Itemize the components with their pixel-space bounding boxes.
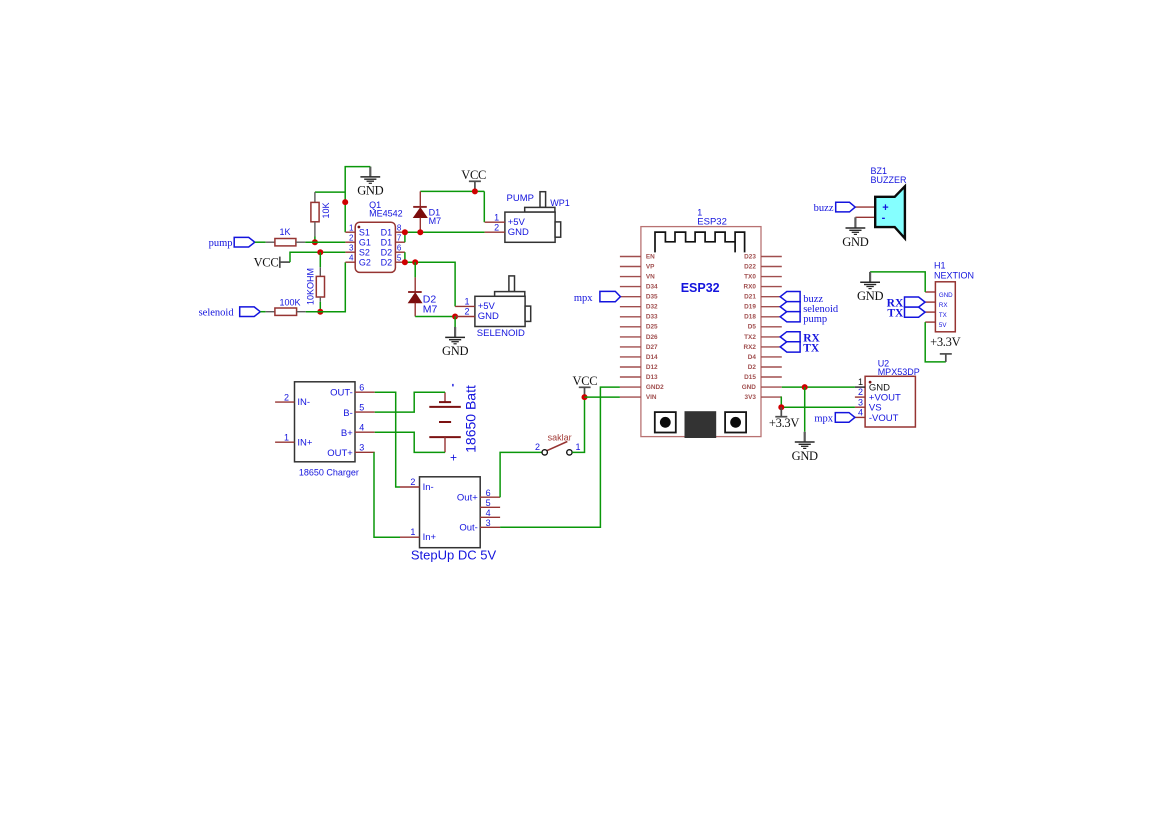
svg-text:D18: D18	[744, 314, 756, 321]
svg-text:GND: GND	[792, 449, 818, 463]
svg-text:G1: G1	[359, 237, 371, 247]
svg-text:2: 2	[535, 442, 540, 452]
svg-text:EN: EN	[646, 253, 655, 260]
junction	[472, 188, 478, 194]
svg-text:S2: S2	[359, 247, 370, 257]
svg-text:1: 1	[284, 432, 289, 442]
svg-text:1K: 1K	[279, 227, 290, 237]
svg-text:GND: GND	[357, 184, 383, 198]
wire	[260, 311, 265, 313]
wire	[420, 190, 484, 192]
wire OUT- to In-	[375, 392, 400, 487]
switch saklar	[535, 433, 581, 455]
net flag pump	[209, 237, 255, 248]
net flag TX nextion	[887, 307, 925, 320]
diode D2 M7	[408, 262, 437, 316]
wire	[405, 231, 485, 233]
svg-text:D32: D32	[646, 304, 658, 311]
svg-text:2: 2	[284, 392, 289, 402]
svg-text:1: 1	[575, 442, 580, 452]
svg-text:4: 4	[359, 423, 364, 433]
resistor 1K	[266, 227, 306, 246]
svg-text:GND: GND	[939, 292, 953, 299]
wire	[415, 316, 455, 318]
svg-text:D15: D15	[744, 374, 756, 381]
svg-text:WP1: WP1	[550, 198, 570, 208]
power +3.3V nextion	[930, 335, 960, 362]
svg-text:1: 1	[349, 223, 354, 232]
net flag selenoid	[199, 307, 261, 318]
junction	[402, 259, 408, 265]
connector SELENOID	[455, 276, 531, 339]
svg-text:B-: B-	[343, 408, 353, 419]
svg-text:D21: D21	[744, 294, 756, 301]
resistor 100K	[266, 298, 306, 316]
svg-text:PUMP: PUMP	[507, 193, 534, 204]
svg-text:GND: GND	[842, 235, 868, 249]
wire 3v3 to VS	[781, 397, 855, 407]
svg-text:2: 2	[858, 387, 863, 397]
svg-text:selenoid: selenoid	[199, 307, 235, 318]
wire	[290, 252, 345, 262]
junction	[452, 314, 458, 320]
svg-text:10K: 10K	[321, 202, 331, 218]
svg-text:OUT-: OUT-	[330, 388, 353, 399]
connector WP1 PUMP	[485, 192, 570, 243]
svg-text:ME4542: ME4542	[369, 209, 403, 219]
svg-text:TX: TX	[803, 343, 820, 355]
wire pins 8-7 bridge	[404, 232, 406, 242]
junction	[402, 229, 408, 235]
svg-text:IN+: IN+	[297, 437, 313, 448]
svg-text:+: +	[450, 451, 457, 465]
svg-text:TX2: TX2	[744, 334, 756, 341]
svg-text:1: 1	[464, 297, 469, 307]
svg-text:G2: G2	[359, 257, 371, 267]
svg-text:GND: GND	[857, 289, 883, 303]
module ESP32	[620, 207, 782, 436]
svg-text:18650 Batt: 18650 Batt	[462, 385, 478, 453]
svg-text:5: 5	[359, 403, 364, 413]
svg-text:M7: M7	[429, 216, 442, 226]
svg-text:GND: GND	[742, 384, 757, 391]
ground mpx	[792, 432, 818, 463]
junction	[412, 259, 418, 265]
svg-text:100K: 100K	[279, 298, 300, 308]
net flag RX (esp32)	[780, 332, 800, 342]
svg-text:4: 4	[858, 407, 863, 417]
svg-text:saklar: saklar	[548, 433, 572, 443]
svg-text:B+: B+	[341, 428, 353, 439]
svg-text:5: 5	[486, 498, 491, 508]
power VCC rotated	[254, 255, 290, 269]
svg-text:In-: In-	[423, 482, 434, 493]
wire	[255, 241, 266, 243]
svg-text:mpx: mpx	[814, 414, 833, 425]
transistor Q1 ME4542	[345, 200, 405, 273]
svg-text:D23: D23	[744, 253, 756, 260]
antenna	[655, 232, 745, 252]
svg-text:VCC: VCC	[254, 255, 279, 269]
svg-text:2: 2	[494, 223, 499, 233]
usb connector	[685, 411, 717, 438]
svg-text:-VOUT: -VOUT	[869, 413, 899, 424]
wire	[306, 262, 346, 312]
svg-text:D25: D25	[646, 324, 658, 331]
svg-text:M7: M7	[423, 304, 438, 316]
svg-text:OUT+: OUT+	[327, 448, 353, 459]
svg-text:RX2: RX2	[743, 344, 756, 351]
svg-text:4: 4	[349, 253, 354, 262]
svg-text:D2: D2	[381, 247, 393, 257]
ground top-left	[357, 167, 383, 198]
svg-text:3V3: 3V3	[745, 394, 757, 401]
module StepUp DC 5V	[400, 477, 500, 563]
resistor 10K	[311, 192, 331, 242]
net flag buzz	[814, 202, 856, 214]
sensor U2 MPX53DP	[855, 358, 920, 427]
net flag buzz (esp32)	[780, 292, 800, 302]
svg-text:RX0: RX0	[743, 284, 756, 291]
junction	[342, 199, 348, 205]
ground nextion	[857, 272, 883, 303]
wire nextion 5V	[925, 322, 946, 362]
wire gnd drop	[804, 387, 806, 432]
power VCC esp32	[572, 374, 597, 397]
resistor 10KOHM	[305, 252, 324, 312]
net flag pump (esp32)	[780, 312, 800, 322]
wire nextion gnd	[870, 272, 925, 292]
svg-text:VCC: VCC	[461, 168, 486, 182]
svg-text:10KOHM: 10KOHM	[305, 268, 315, 305]
svg-text:3: 3	[349, 243, 354, 252]
svg-text:TX: TX	[887, 308, 904, 320]
svg-text:D2: D2	[381, 257, 393, 267]
svg-text:4: 4	[486, 508, 491, 518]
wire	[305, 241, 345, 243]
svg-text:buzz: buzz	[814, 203, 834, 214]
svg-text:Out+: Out+	[457, 493, 478, 504]
connector H1 NEXTION	[925, 260, 974, 332]
junction	[317, 309, 323, 315]
svg-text:RX: RX	[939, 302, 948, 309]
svg-text:GND: GND	[442, 344, 468, 358]
svg-text:1: 1	[494, 213, 499, 223]
wire pins 6-5 bridge	[404, 252, 406, 262]
button left	[655, 412, 676, 432]
battery 18650 Batt	[429, 384, 478, 465]
junction	[417, 229, 423, 235]
svg-text:D26: D26	[646, 334, 658, 341]
junction	[778, 404, 784, 410]
svg-text:-: -	[882, 212, 886, 224]
svg-text:7: 7	[397, 233, 402, 242]
svg-text:TX: TX	[939, 312, 947, 319]
net flag mpx right	[814, 413, 855, 425]
diode D1 M7	[413, 191, 441, 232]
svg-text:pump: pump	[803, 314, 827, 325]
svg-text:2: 2	[349, 233, 354, 242]
junction	[802, 384, 808, 390]
svg-text:D12: D12	[646, 364, 658, 371]
wire B+ to battery	[375, 432, 445, 452]
svg-text:pump: pump	[209, 238, 233, 249]
svg-text:+3.3V: +3.3V	[769, 416, 799, 430]
svg-text:3: 3	[486, 518, 491, 528]
svg-text:In+: In+	[423, 532, 437, 543]
wire	[345, 167, 370, 233]
svg-text:3: 3	[858, 397, 863, 407]
wire OUT+ to In+	[374, 452, 400, 537]
svg-text:5V: 5V	[939, 322, 947, 329]
svg-text:TX0: TX0	[744, 274, 756, 281]
power VCC top	[461, 168, 486, 191]
junction	[317, 249, 323, 255]
svg-text:18650 Charger: 18650 Charger	[299, 467, 359, 477]
svg-text:mpx: mpx	[574, 293, 593, 304]
net flag RX nextion	[887, 297, 925, 310]
power +3.3V esp32	[769, 407, 799, 430]
net flag mpx left	[574, 291, 621, 303]
svg-text:GND2: GND2	[646, 384, 664, 391]
svg-text:6: 6	[397, 243, 402, 252]
svg-text:D19: D19	[744, 304, 756, 311]
button right	[725, 412, 746, 432]
wire	[315, 191, 345, 193]
svg-text:6: 6	[359, 383, 364, 393]
wire esp gnd to mpx	[782, 386, 855, 388]
junction	[582, 394, 588, 400]
svg-text:5: 5	[397, 253, 402, 262]
svg-text:ESP32: ESP32	[681, 281, 720, 295]
ground buzzer	[842, 217, 868, 249]
svg-text:D35: D35	[646, 294, 658, 301]
svg-text:GND: GND	[508, 227, 529, 238]
svg-text:D4: D4	[748, 354, 757, 361]
net flag selenoid (esp32)	[780, 302, 800, 312]
svg-text:IN-: IN-	[297, 397, 310, 408]
wire B- to battery	[375, 392, 445, 412]
ground below selenoid	[442, 317, 468, 359]
svg-text:D14: D14	[646, 354, 658, 361]
svg-text:D34: D34	[646, 284, 658, 291]
svg-text:StepUp DC 5V: StepUp DC 5V	[411, 548, 497, 563]
svg-text:D22: D22	[744, 263, 756, 270]
svg-text:D1: D1	[381, 237, 393, 247]
wire	[405, 262, 455, 306]
buzzer BZ1	[855, 166, 907, 238]
net flag TX (esp32)	[780, 342, 800, 352]
svg-text:1: 1	[410, 527, 415, 537]
svg-text:2: 2	[410, 477, 415, 487]
svg-text:D1: D1	[381, 227, 393, 237]
svg-text:VP: VP	[646, 263, 655, 270]
svg-text:BUZZER: BUZZER	[871, 175, 908, 185]
svg-text:Out-: Out-	[459, 523, 477, 534]
svg-text:D27: D27	[646, 344, 658, 351]
svg-text:6: 6	[486, 488, 491, 498]
svg-text:+3.3V: +3.3V	[930, 335, 960, 349]
wire VIN	[585, 396, 620, 398]
svg-text:D13: D13	[646, 374, 658, 381]
module 18650 Charger	[275, 382, 375, 478]
svg-text:NEXTION: NEXTION	[934, 270, 974, 280]
svg-text:8: 8	[397, 223, 402, 232]
svg-text:3: 3	[359, 443, 364, 453]
svg-text:S1: S1	[359, 227, 370, 237]
svg-text:D5: D5	[748, 324, 757, 331]
wire Out+ to switch	[500, 452, 542, 497]
wire switch to VIN	[572, 397, 584, 452]
svg-text:VCC: VCC	[572, 374, 597, 388]
wire GND2 to Out-	[500, 387, 620, 527]
wire	[483, 191, 485, 222]
svg-text:D33: D33	[646, 314, 658, 321]
svg-text:H1: H1	[934, 260, 946, 270]
svg-text:SELENOID: SELENOID	[477, 328, 525, 339]
svg-text:D2: D2	[748, 364, 757, 371]
svg-text:VN: VN	[646, 274, 655, 281]
svg-text:GND: GND	[478, 311, 499, 322]
svg-text:1: 1	[858, 377, 863, 387]
junction	[312, 239, 318, 245]
svg-text:2: 2	[464, 307, 469, 317]
svg-text:VIN: VIN	[646, 394, 657, 401]
